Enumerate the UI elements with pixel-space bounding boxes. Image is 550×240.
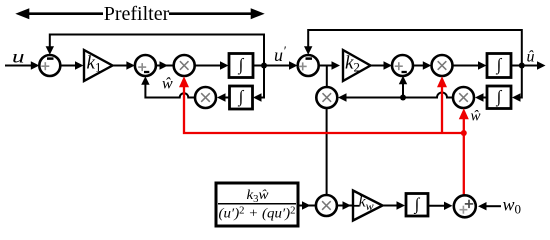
wire branch down from T to multiplier M5 [326, 66, 328, 88]
wire kw to integrator I5 [383, 201, 406, 209]
red wire branch up to M3 [437, 76, 447, 133]
wire node u-hat down into integrator I4 [512, 66, 522, 102]
gain kw [352, 191, 383, 221]
wire k1 to summing junction S2 [113, 61, 135, 69]
wire I3 to node u-hat and output [511, 61, 546, 69]
gain k1 [84, 50, 113, 81]
wire M6 to gain kw [337, 201, 353, 209]
svg-text:u′: u′ [274, 43, 286, 65]
summing junction S5 [454, 195, 476, 217]
integrator I4 [487, 86, 511, 109]
multiplier M6 [316, 195, 337, 216]
wire branch up from dot to S4 bottom [399, 76, 407, 98]
svg-text:k2: k2 [345, 53, 360, 75]
svg-text:(u′)2 + (qu′)2: (u′)2 + (qu′)2 [219, 206, 296, 222]
svg-text:Prefilter: Prefilter [104, 3, 170, 25]
wire I4 to multiplier M4 [475, 93, 487, 101]
multiplier M5 [316, 87, 337, 108]
red junction dot [461, 130, 467, 136]
wire S2 to multiplier M1 [156, 61, 174, 69]
wire I1 to node u' and on to S3 [253, 61, 298, 69]
summing junction S3 [298, 55, 319, 76]
multiplier M1 [174, 55, 195, 76]
wire k2 to summing junction S4 [371, 61, 393, 69]
wire fraction block to multiplier M6 [298, 201, 316, 209]
integrator I5 [406, 194, 428, 217]
multiplier M2 [195, 87, 216, 108]
node u' junction dot [261, 63, 267, 69]
integrator I1 [229, 54, 253, 78]
svg-text:k3ŵ: k3ŵ [247, 188, 270, 205]
summing junction S4 [392, 55, 413, 76]
wire M3 to integrator I3 [453, 61, 487, 69]
svg-text:u: u [12, 47, 25, 67]
wire S4 to multiplier M3 [413, 61, 431, 69]
node u-hat junction dot [519, 63, 525, 69]
svg-text:ŵ: ŵ [471, 109, 481, 125]
red wire w from S5 up to junction and M4 [459, 108, 469, 195]
wire M1 to integrator I1 [195, 61, 229, 69]
wire I2 to multiplier M2 [217, 93, 230, 101]
wire u into summing junction S1 [5, 61, 39, 69]
wire feedback from node u-hat to S3 (top loop) [304, 30, 522, 66]
prefilter double arrow [15, 8, 264, 19]
wire feedback from node u' to S1 (top loop) [46, 35, 264, 66]
multiplier M3 [432, 55, 453, 76]
red wire horizontal to M1 (w-hat distribution) [179, 76, 464, 133]
multiplier M4 [453, 87, 474, 108]
svg-text:ŵ: ŵ [162, 76, 173, 93]
summing junction S2 [135, 55, 156, 76]
wire I5 to summing junction S5 [428, 202, 453, 210]
summing junction S1 [39, 55, 60, 76]
wire S1 to gain k1 [60, 61, 83, 69]
svg-text:k1: k1 [87, 53, 102, 75]
wire M2 to S2 bottom (with hop over red line) [141, 76, 195, 97]
wire node u' down into integrator I2 [253, 66, 264, 102]
fraction block k3*w-hat/((u')^2+(qu')^2) [216, 183, 298, 226]
junction dot on M4-M5 wire [400, 95, 406, 101]
svg-text:û: û [527, 48, 535, 65]
wire S3 to gain k2 with T branch down [319, 61, 340, 69]
svg-text:w0: w0 [503, 195, 522, 217]
integrator I3 [487, 54, 511, 78]
integrator I2 [230, 86, 253, 109]
input w0 arrow into S5 [478, 202, 501, 210]
wire M5 down to multiplier M6 [326, 108, 328, 195]
wire M4 to M5 (with hop over red line, junction to S4) [338, 93, 453, 102]
gain k2 [343, 50, 371, 81]
